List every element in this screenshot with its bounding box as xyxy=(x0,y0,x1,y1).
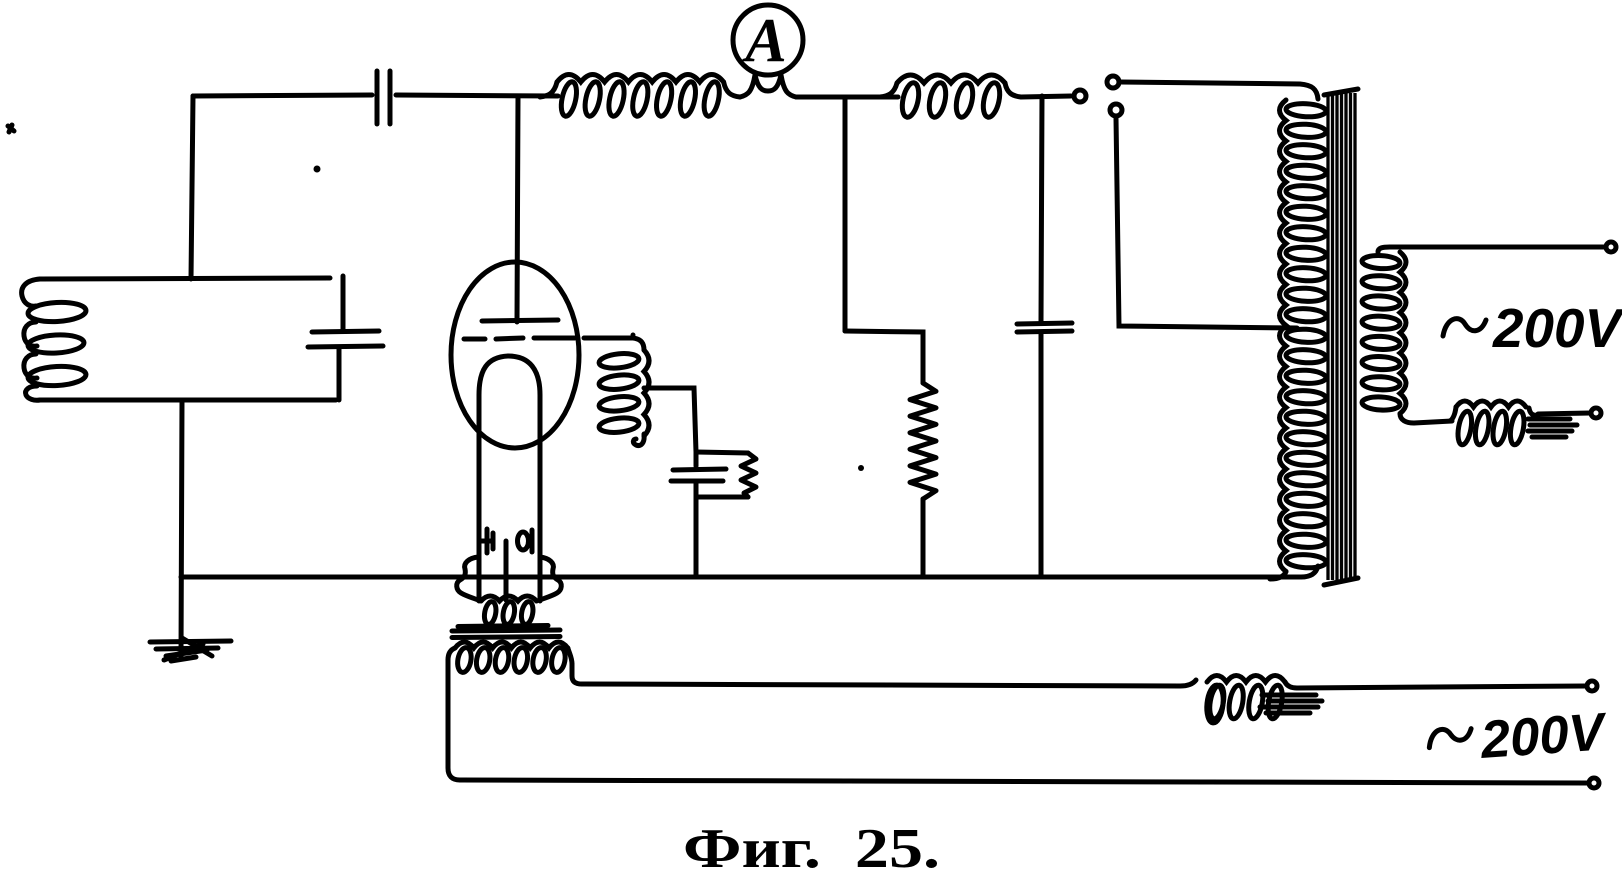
wire tank bottom to ground / bus xyxy=(181,400,182,658)
ink speck mid canvas xyxy=(631,333,636,338)
filament centre-tap lead xyxy=(504,541,509,600)
inductor L6 (iron-core mains choke) xyxy=(1205,676,1322,724)
triode V1 envelope xyxy=(451,262,579,448)
wire bottom bus (common return) xyxy=(181,575,1301,580)
capacitor C4 (plate bypass condenser) xyxy=(1017,323,1072,577)
ground (earth) symbol xyxy=(150,638,231,661)
ink speck top-left margin xyxy=(8,125,14,132)
filament transformer T2 secondary (3 small turns) xyxy=(481,596,537,625)
wire grid coil tap to grid-leak network xyxy=(644,388,696,452)
svg-text:200V: 200V xyxy=(1492,297,1622,359)
wire T2 primary left lead down to lower mains wire xyxy=(448,660,460,780)
ink speck near resistor R2 xyxy=(858,465,864,471)
resistor R2 (plate feed resistor) xyxy=(910,383,936,499)
wire resistor R2 to bus xyxy=(921,499,926,577)
triode V1 anode (plate) xyxy=(482,320,558,321)
filament transformer T2 primary (6 turns) xyxy=(448,642,572,673)
tube socket bulge (right) xyxy=(540,557,561,600)
wire T1 secondary top to output terminal xyxy=(1390,245,1605,250)
grid coil L5 (feedback/grid coil, 4 turns) xyxy=(598,338,649,446)
inductor L3 (iron-core choke in secondary lead) xyxy=(1450,401,1577,446)
terminal (open jack, left of plug pair) xyxy=(1074,90,1086,102)
capacitor C2 (tank tuning capacitor, right side of box) xyxy=(308,276,383,400)
wire top node down to tank circuit xyxy=(191,96,193,279)
svg-text:200V: 200V xyxy=(1478,702,1610,770)
triode V1 grid (dashed) xyxy=(464,338,633,339)
wire capacitor C1 to inductor L1 xyxy=(396,95,558,96)
wire plug lower terminal down and right to T1 primary tap xyxy=(1116,118,1297,328)
label ~200V (filament mains supply) xyxy=(1427,702,1610,773)
wire upper mains wire to choke L6 xyxy=(582,680,1196,686)
terminal (plug pair lower) xyxy=(1110,104,1122,116)
filament transformer T2 core (thick bar) xyxy=(452,626,560,638)
ammeter A (thermo-ammeter in antenna lead) xyxy=(733,5,803,97)
terminal (mains lower) xyxy=(1589,778,1599,788)
terminal (plug pair upper) xyxy=(1107,76,1119,88)
wire ammeter to inductor L2 xyxy=(796,95,898,100)
inductor L1 (antenna series coil, 7 turns) xyxy=(540,75,740,118)
wire choke L3 to output terminal xyxy=(1538,413,1590,414)
node: anode feed drop at x=518 xyxy=(517,96,518,322)
inductor L2 (RF choke, 4 turns) xyxy=(880,75,1021,119)
ink speck near top capacitor xyxy=(314,166,321,173)
terminal (secondary output lower) xyxy=(1591,408,1601,418)
wire T1 primary bottom to bus xyxy=(1301,566,1318,577)
wire inductor L2 to open terminal xyxy=(1021,96,1071,97)
label ~200V (transformer secondary supply) xyxy=(1443,297,1622,359)
transformer T1 core (laminated, 7 lines) xyxy=(1324,89,1358,585)
terminal (mains upper) xyxy=(1587,681,1597,691)
filament marks: bypass ticks inside tube base xyxy=(480,529,532,600)
wire plate branch jog to resistor R2 xyxy=(845,331,923,383)
wire choke L6 to terminal xyxy=(1297,686,1586,688)
tube socket bulge (left) xyxy=(457,557,478,600)
wire lower mains wire to terminal xyxy=(460,780,1588,783)
node: bypass capacitor branch drop at x=1042 xyxy=(1041,96,1042,321)
grid capacitor C3 with grid-leak resistor R1 xyxy=(671,452,756,577)
tank inductor L4 (coupling coil unit drawn as box, 3 turns on left) xyxy=(22,278,336,400)
node: plate supply branch drop at x=845 xyxy=(843,97,848,331)
svg-text:A: A xyxy=(741,7,786,75)
wire top-left horizontal from node to blocking capacitor xyxy=(193,95,372,96)
svg-text:Фиг. 25.: Фиг. 25. xyxy=(683,818,940,872)
transformer T1 primary winding (23 turns) xyxy=(1270,100,1326,579)
terminal (secondary output upper) xyxy=(1606,242,1616,252)
capacitor C1 (series blocking capacitor, top) xyxy=(377,71,390,124)
wire T2 primary right lead to upper mains wire xyxy=(572,664,582,684)
triode V1 filament xyxy=(479,356,540,601)
wire T1 secondary bottom to choke L3 xyxy=(1414,421,1452,423)
transformer T1 secondary winding (8 turns) xyxy=(1362,247,1414,423)
wire plug upper terminal to transformer T1 primary top xyxy=(1120,82,1318,99)
